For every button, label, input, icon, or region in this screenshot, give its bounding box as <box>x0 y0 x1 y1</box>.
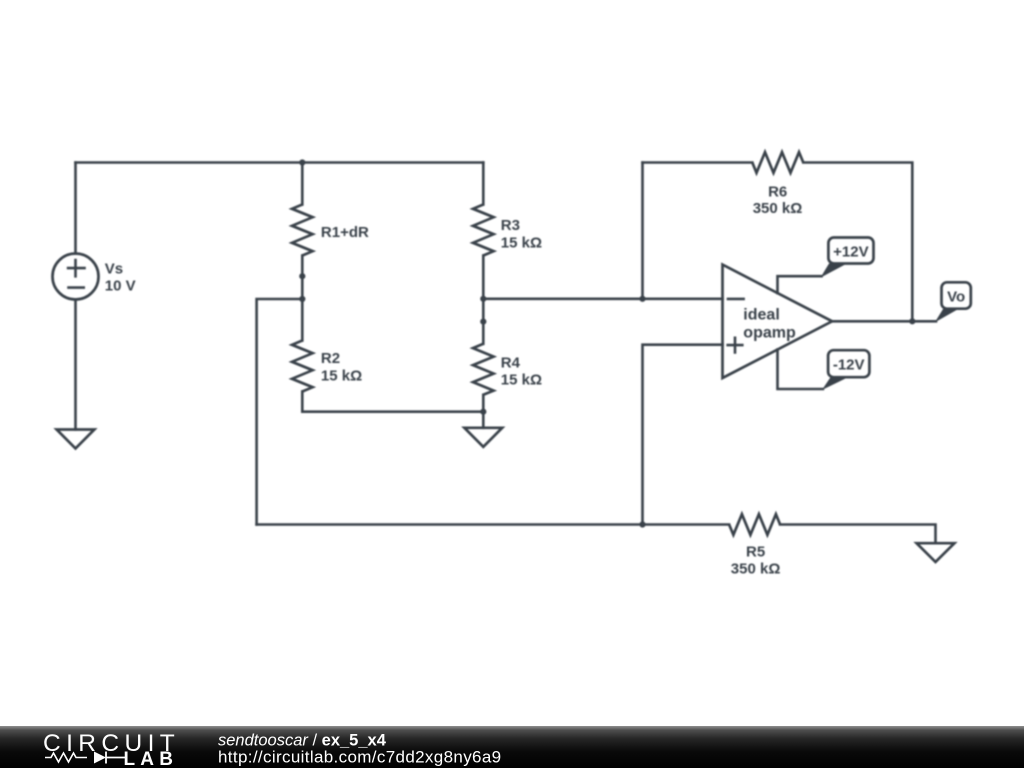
opamp minus marker <box>728 298 744 301</box>
node junction output feedback <box>909 318 915 324</box>
flag pointer +12V <box>821 264 848 278</box>
node junction top rail <box>299 159 305 165</box>
wire bottom rail <box>257 523 729 526</box>
wire R3 bottom lead <box>482 256 485 299</box>
svg-text:Vo: Vo <box>947 288 965 305</box>
node junction R3 output <box>480 296 486 302</box>
net label +12V <box>828 238 873 264</box>
resistor R1 <box>292 205 313 256</box>
wire R5 right to ground <box>780 525 935 544</box>
node junction bottom rail <box>639 521 645 527</box>
node junction R4 ground <box>480 409 486 415</box>
wire ground stub <box>482 412 485 428</box>
net label Vo <box>942 282 971 308</box>
wire R3-R4 link <box>482 299 485 322</box>
ground GND2 <box>464 428 502 447</box>
ground GND1 <box>57 430 95 449</box>
wire negative supply pin <box>778 350 823 390</box>
voltage source Vs <box>53 254 99 300</box>
wire top rail <box>76 161 484 164</box>
net label -12V <box>828 350 869 377</box>
wire feedback vertical <box>641 163 644 299</box>
svg-text:http://circuitlab.com/c7dd2xg8: http://circuitlab.com/c7dd2xg8ny6a9 <box>218 748 501 767</box>
wire R4 bottom lead <box>482 395 485 412</box>
svg-text:+12V: +12V <box>833 243 868 260</box>
op-amp U1 <box>723 265 833 378</box>
svg-text:R6: R6 <box>768 184 787 201</box>
opamp plus marker <box>728 338 743 353</box>
node junction inverting input <box>639 296 645 302</box>
wire mid rail to opamp <box>483 297 722 300</box>
wire R2 bottom lead <box>301 392 304 412</box>
svg-text:10 V: 10 V <box>105 278 136 295</box>
svg-text:15 kΩ: 15 kΩ <box>321 367 362 384</box>
svg-text:R1+dR: R1+dR <box>321 224 369 241</box>
footer bar <box>0 726 1024 768</box>
svg-text:-12V: -12V <box>833 357 865 374</box>
wire bridge tap to left branch <box>257 299 303 525</box>
wire R2 top lead <box>301 299 304 341</box>
wire opamp output <box>832 320 936 323</box>
wire R6 left rail <box>643 161 753 164</box>
resistor R3 <box>473 205 494 256</box>
flag pointer Vo <box>935 309 959 323</box>
resistor R5 <box>729 514 780 535</box>
ground GND3 <box>917 543 955 562</box>
wire Vs bottom lead <box>74 300 77 430</box>
resistor R4 <box>473 344 494 395</box>
wire between junctions <box>301 276 304 299</box>
svg-text:R4: R4 <box>501 354 521 371</box>
svg-text:15 kΩ: 15 kΩ <box>501 372 542 389</box>
svg-text:R2: R2 <box>321 350 340 367</box>
wire positive supply pin <box>778 276 822 293</box>
wire R4 top lead <box>482 322 485 344</box>
wire R1 top lead <box>301 163 304 205</box>
wire R6 right rail <box>803 163 912 322</box>
svg-text:350 kΩ: 350 kΩ <box>753 200 803 217</box>
wire bottom mid rail <box>302 410 483 413</box>
node junction bridge tap <box>299 296 305 302</box>
svg-text:R3: R3 <box>501 217 520 234</box>
svg-text:15 kΩ: 15 kΩ <box>501 234 542 251</box>
svg-text:Vs: Vs <box>105 261 123 278</box>
flag pointer -12V <box>822 377 848 390</box>
logo resistor-diode glyph <box>45 753 87 762</box>
node junction R1-R2 <box>299 273 305 279</box>
wire R3 top lead <box>482 163 485 205</box>
resistor R6 <box>752 152 803 173</box>
svg-text:ideal: ideal <box>743 307 779 324</box>
wire noninverting input <box>643 345 723 525</box>
svg-text:LAB: LAB <box>124 749 179 768</box>
node junction R4 top <box>480 319 486 325</box>
svg-text:350 kΩ: 350 kΩ <box>731 561 781 578</box>
svg-text:R5: R5 <box>746 543 765 560</box>
wire R1 bottom lead <box>301 256 304 277</box>
wire Vs top lead <box>74 163 77 254</box>
svg-text:opamp: opamp <box>743 325 796 342</box>
resistor R2 <box>292 341 313 392</box>
